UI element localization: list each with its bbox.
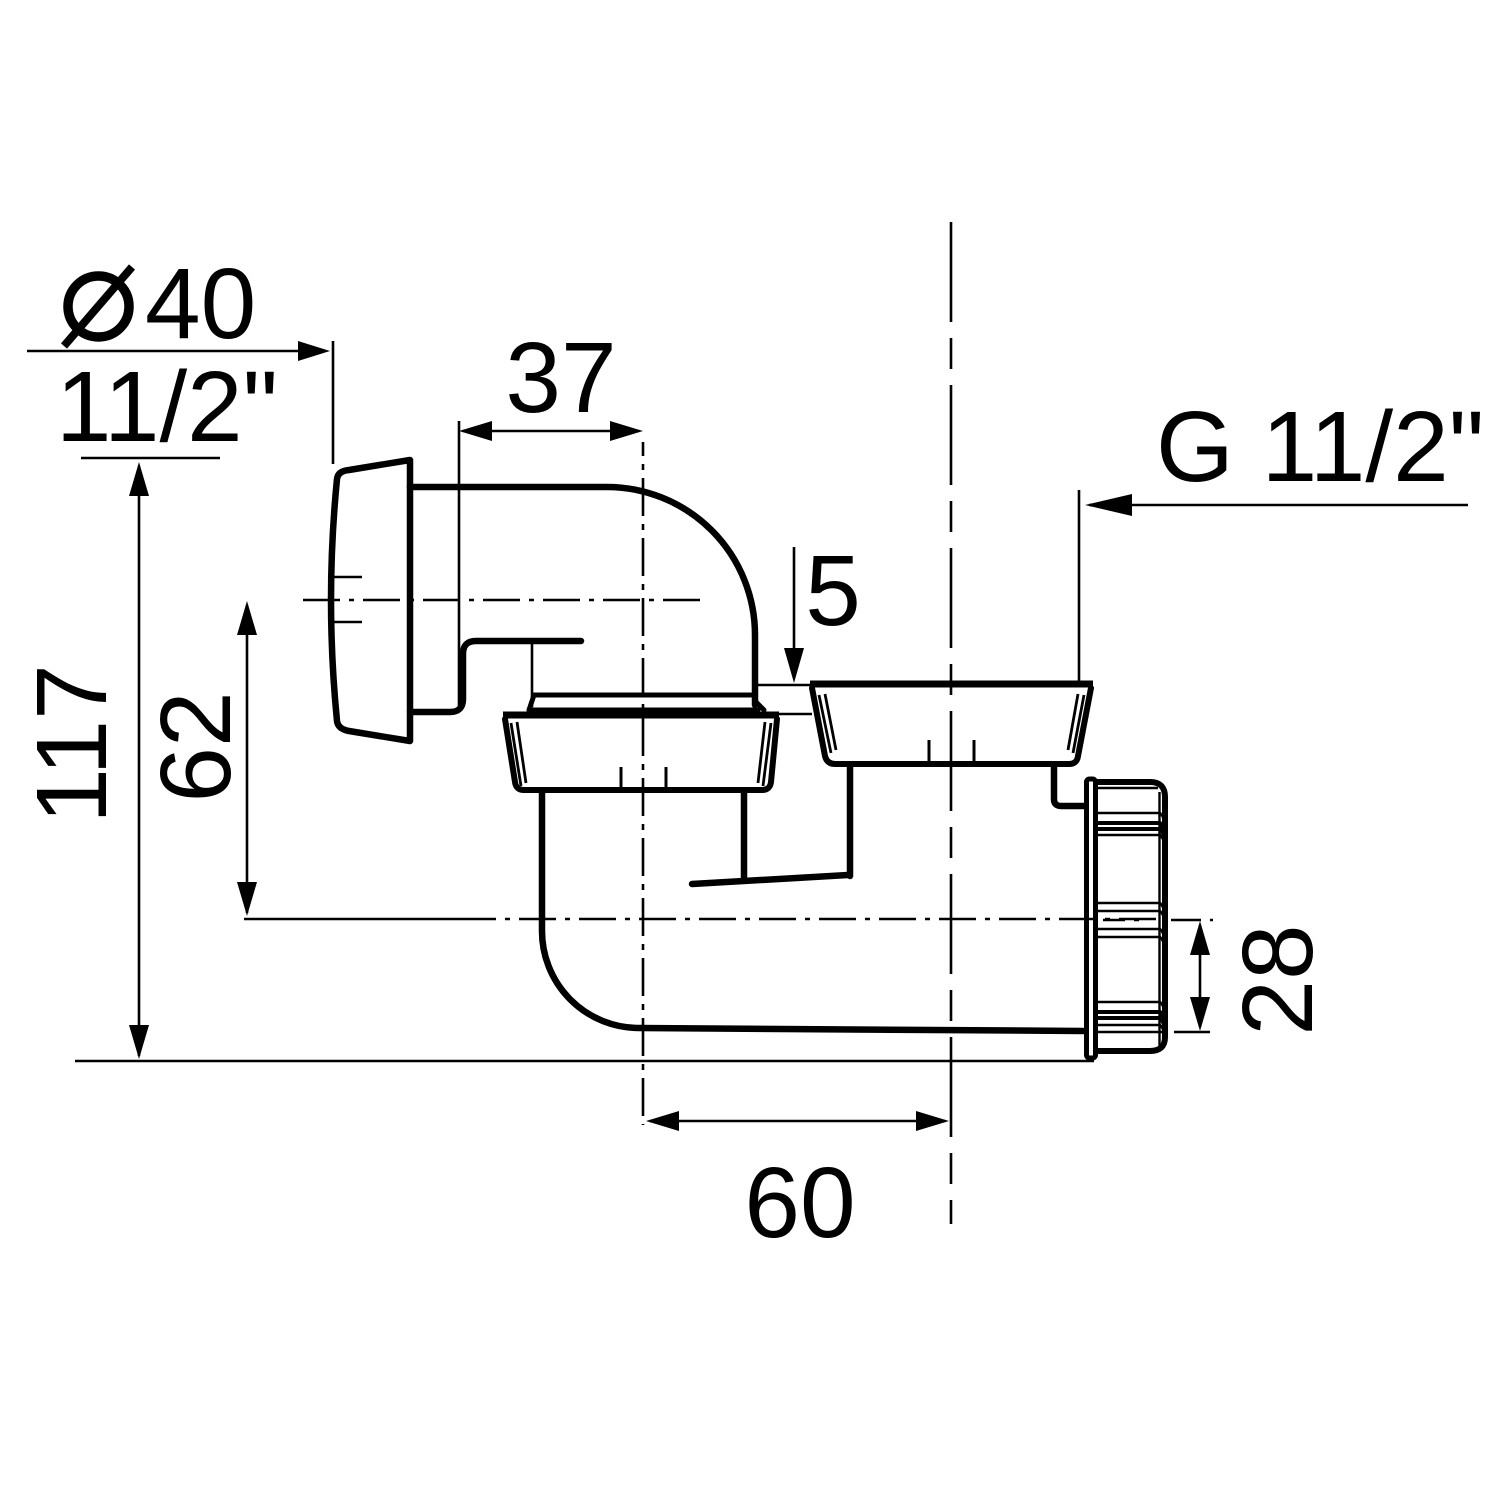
flange tick marks — [333, 577, 362, 622]
label diameter 40 — [68, 276, 129, 337]
outlet washer flange — [1087, 779, 1096, 1058]
union nut left — [503, 712, 779, 719]
svg-text:37: 37 — [505, 322, 616, 434]
centerline horizontal trap axis — [244, 919, 1213, 920]
svg-text:117: 117 — [16, 664, 128, 823]
inlet cup thread ticks — [929, 740, 974, 763]
union nut left thread ticks — [621, 767, 666, 790]
inlet cup nut right branch — [810, 681, 1093, 688]
union nut left facet arcs — [511, 722, 771, 786]
elbow socket collar — [529, 695, 764, 710]
elbow hidden pipe edge — [531, 643, 534, 707]
dimension 62 vertical — [246, 605, 249, 913]
dimension 28 vertical — [1174, 925, 1210, 1032]
underline 1 1/2 inch — [81, 457, 220, 460]
svg-text:G 11/2": G 11/2" — [1156, 391, 1484, 503]
svg-text:5: 5 — [805, 535, 861, 647]
baseline ground line — [75, 1060, 1094, 1063]
outlet nut thread ribs — [1097, 788, 1164, 1032]
outlet nut inner edge — [1158, 792, 1160, 1048]
dimension 117 vertical — [138, 466, 141, 1056]
centerline vertical left branch — [642, 442, 645, 1125]
svg-text:28: 28 — [1222, 924, 1334, 1035]
svg-text:60: 60 — [744, 1147, 855, 1259]
centerline vertical right branch — [950, 222, 953, 1224]
inlet cup facet arcs — [819, 694, 1084, 753]
left downpipe and trap bend — [542, 793, 1083, 1031]
wall flange outline — [331, 460, 410, 741]
svg-text:62: 62 — [140, 691, 252, 802]
gap reference line 5 — [766, 713, 812, 716]
internal weir partition — [692, 875, 848, 884]
dimension 5 leader — [758, 547, 811, 685]
outlet threaded nut — [1097, 782, 1165, 1051]
dimension 37 horizontal — [459, 421, 639, 708]
right downpipe to outlet — [850, 765, 1084, 876]
dimension 60 horizontal — [650, 1120, 945, 1123]
svg-text:40: 40 — [145, 248, 256, 360]
dimension leader diameter 40 — [27, 341, 333, 464]
elbow body — [410, 487, 755, 712]
svg-text:11/2": 11/2" — [56, 351, 278, 463]
dimension leader G 1 1/2 inch — [1079, 490, 1468, 684]
centerline horizontal elbow axis — [303, 599, 705, 602]
